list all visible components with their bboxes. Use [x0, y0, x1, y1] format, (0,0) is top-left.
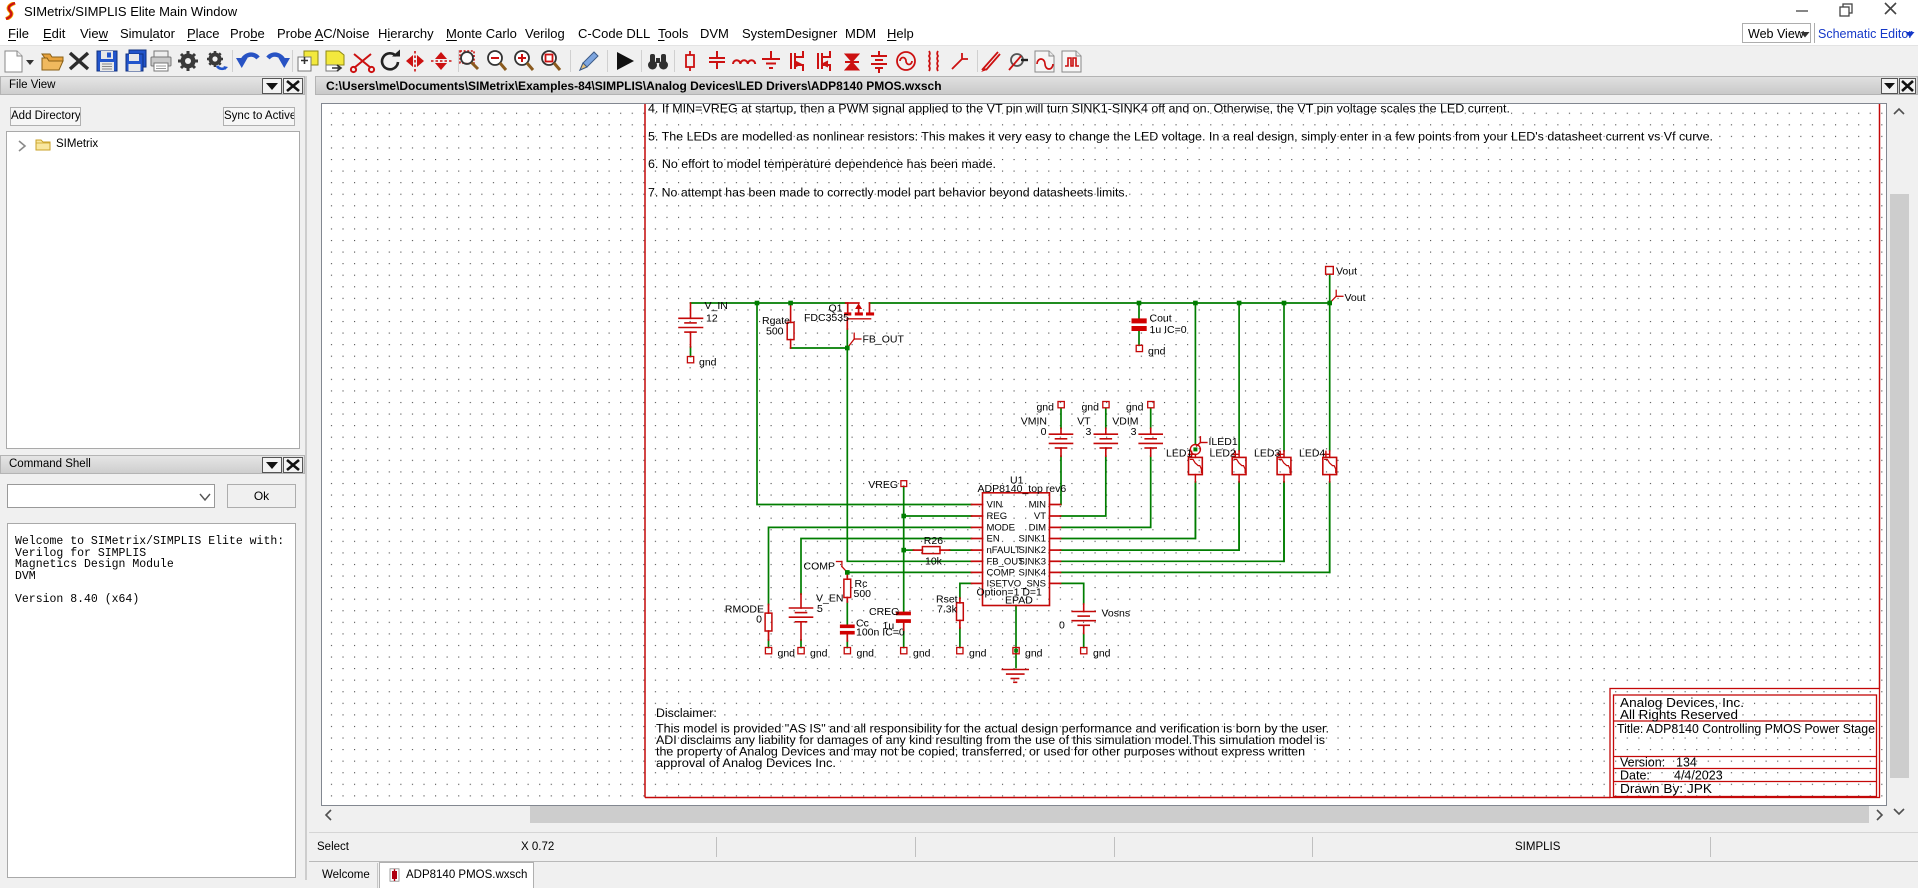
flip horizontal [431, 52, 453, 70]
wire VREG vertical [903, 486, 905, 611]
svg-text:gnd: gnd [857, 648, 875, 660]
svg-text:EN: EN [987, 534, 1000, 545]
svg-text:gnd: gnd [969, 648, 987, 660]
svg-text:SINK2: SINK2 [1019, 545, 1046, 556]
wire VDIM gnd lead [1150, 409, 1152, 429]
zoom box [542, 51, 560, 70]
zoom out [488, 51, 506, 70]
svg-text:gnd: gnd [913, 648, 931, 660]
wire SINK1 net [1061, 482, 1196, 539]
probe FB_OUT [847, 333, 861, 348]
LED1 [1189, 451, 1203, 482]
svg-text:134: 134 [1676, 756, 1697, 770]
wire VT gnd lead [1105, 409, 1107, 429]
svg-text:nFAULT: nFAULT [987, 545, 1021, 556]
svg-text:approval of Analog Devices Inc: approval of Analog Devices Inc. [656, 756, 836, 770]
wire LED4 anode [1329, 303, 1331, 451]
save all [126, 50, 146, 71]
svg-text:500: 500 [854, 588, 872, 600]
wire VO_SNS net [1061, 583, 1084, 604]
svg-text:4/4/2023: 4/4/2023 [1674, 769, 1723, 783]
wire DIM net [1061, 456, 1151, 527]
place resistor [686, 51, 694, 71]
run simulation [617, 52, 634, 70]
LED3 [1277, 451, 1291, 482]
place power supply [871, 51, 887, 73]
svg-text:REG: REG [987, 511, 1008, 522]
ground terminal VDIM [1126, 402, 1154, 414]
svg-text:7.3k: 7.3k [937, 604, 958, 616]
rotate [382, 53, 398, 69]
place capacitor [709, 51, 725, 69]
svg-text:MODE: MODE [987, 522, 1016, 533]
svg-text:Drawn By: JPK: Drawn By: JPK [1620, 782, 1713, 796]
svg-text:VREG: VREG [868, 479, 898, 491]
svg-text:Date:: Date: [1620, 769, 1650, 783]
svg-text:CREG: CREG [869, 606, 899, 618]
wire nFAULT segments [904, 549, 972, 551]
open folder [42, 54, 63, 70]
svg-text:COMP: COMP [987, 567, 1016, 578]
wire Rset gnd [959, 628, 961, 648]
wire ISET net [960, 583, 972, 598]
probe Vout [1330, 290, 1343, 303]
svg-text:LED4: LED4 [1299, 447, 1325, 459]
svg-text:ADP8140_top rev6: ADP8140_top rev6 [978, 483, 1067, 495]
place ground [762, 51, 780, 68]
wire Cc gnd [846, 641, 848, 648]
ground terminal VMIN [1036, 402, 1064, 414]
wire LED1 anode [1194, 303, 1196, 444]
svg-text:Cout: Cout [1150, 313, 1172, 325]
ground terminal EPAD [1013, 648, 1043, 660]
ground terminal V_IN [687, 357, 716, 369]
svg-text:SINK4: SINK4 [1019, 567, 1046, 578]
svg-text:10k: 10k [925, 556, 943, 568]
svg-text:gnd: gnd [1081, 402, 1099, 414]
svg-text:VT: VT [1034, 511, 1046, 522]
place ac source [897, 52, 915, 70]
page border bottom [645, 797, 1610, 799]
resistor Rc [844, 572, 851, 602]
svg-text:gnd: gnd [1036, 402, 1054, 414]
wire REG row [904, 515, 972, 517]
svg-text:ILED1: ILED1 [1209, 436, 1238, 448]
capacitor Cout [1132, 318, 1147, 331]
svg-text:LED2: LED2 [1210, 447, 1236, 459]
probe ILED1 (current probe) [1190, 437, 1207, 455]
wire EPAD to ground [1015, 606, 1017, 668]
svg-text:0: 0 [1041, 426, 1047, 438]
svg-text:Disclaimer:: Disclaimer: [656, 706, 717, 720]
redo [268, 55, 284, 63]
ground terminal Cc [844, 648, 874, 660]
terminal VREG [868, 479, 906, 491]
flip vertical [406, 51, 424, 73]
svg-text:7. No attempt has been made to: 7. No attempt has been made to correctly… [648, 186, 1128, 200]
svg-text:gnd: gnd [699, 357, 717, 369]
svg-text:1u IC=0: 1u IC=0 [1150, 324, 1187, 336]
svg-text:1u: 1u [883, 620, 895, 632]
svg-text:gnd: gnd [1025, 648, 1043, 660]
disclaimer [656, 706, 1329, 770]
wire SINK2 net [1061, 482, 1240, 550]
wire V_EN gnd [800, 640, 802, 648]
edit pencil [580, 52, 598, 70]
wire Rgate to FB_OUT node [791, 347, 848, 349]
place inductor [733, 60, 755, 64]
ground terminal V_EN [798, 648, 828, 660]
place diode [845, 54, 859, 70]
wire Rc to Cc [846, 602, 848, 625]
close X [70, 53, 88, 69]
svg-text:FB_OUT: FB_OUT [863, 334, 905, 346]
svg-text:All Rights Reserved: All Rights Reserved [1620, 708, 1738, 722]
wire VIN net to pin [757, 303, 972, 505]
svg-text:0: 0 [1059, 620, 1065, 632]
wire MIN net [1060, 456, 1063, 504]
wire V_IN top rail [691, 302, 846, 304]
svg-text:gnd: gnd [778, 648, 796, 660]
svg-text:12: 12 [706, 313, 718, 325]
svg-text:DIM: DIM [1029, 522, 1047, 533]
zoom in [515, 51, 533, 70]
wire SINK4 net [1061, 482, 1330, 572]
svg-text:4. If MIN=VREG at startup, the: 4. If MIN=VREG at startup, then a PWM si… [648, 104, 1510, 116]
svg-text:Vosns: Vosns [1102, 608, 1131, 620]
battery V_EN [790, 594, 813, 640]
title block [1610, 689, 1880, 798]
svg-text:Version:: Version: [1620, 756, 1665, 770]
svg-text:Vout: Vout [1345, 292, 1366, 304]
wire EN net [801, 539, 972, 595]
svg-text:gnd: gnd [1093, 648, 1111, 660]
transistor Q1 (PMOS FDC3535) [844, 303, 874, 329]
wire LED2 cathode [1238, 482, 1240, 550]
wire LED3 anode [1283, 303, 1285, 451]
svg-text:5: 5 [817, 603, 823, 615]
svg-text:EPAD: EPAD [1005, 595, 1033, 607]
resistor RMODE [765, 605, 772, 641]
separators [233, 50, 978, 72]
options gear [178, 51, 198, 71]
copy to clipboard [298, 51, 318, 71]
svg-text:MIN: MIN [1029, 500, 1047, 511]
simulator options gear [207, 51, 228, 70]
ground terminal RMODE [765, 648, 795, 660]
schematic notes [648, 102, 1713, 200]
place pmos [818, 51, 830, 71]
Web View / Schematic Editor selectors [1748, 27, 1804, 41]
horizontal scrollbar [321, 806, 1887, 823]
new schematic [5, 51, 22, 72]
window title [315, 76, 1918, 95]
Command Shell panel [0, 455, 305, 474]
svg-text:FDC3535: FDC3535 [804, 312, 849, 324]
svg-text:R26: R26 [924, 535, 943, 547]
ground terminal VT [1081, 402, 1109, 414]
ground terminal CREG [901, 648, 931, 660]
wire Vosns gnd [1083, 634, 1085, 648]
paste [326, 51, 344, 71]
wire CREG gnd [903, 630, 905, 648]
wire LED2 anode [1238, 303, 1240, 451]
svg-text:SINK3: SINK3 [1019, 556, 1046, 567]
svg-text:100n IC=0: 100n IC=0 [856, 627, 905, 639]
battery Vosns [1072, 604, 1095, 634]
page border right [1879, 104, 1881, 689]
svg-text:VIN: VIN [987, 500, 1003, 511]
svg-text:3: 3 [1131, 426, 1137, 438]
resistor Rset [957, 598, 964, 628]
wire V_IN battery gnd [690, 347, 692, 357]
wire Vout terminal drop [1329, 275, 1331, 304]
ground terminal Vosns [1081, 648, 1111, 660]
svg-text:gnd: gnd [1148, 345, 1166, 357]
save [97, 51, 117, 71]
wire LED4 cathode [1329, 482, 1331, 572]
capacitor Cc [840, 625, 855, 635]
svg-text:0: 0 [756, 614, 762, 626]
resistor Rgate [787, 303, 794, 348]
print [151, 51, 171, 71]
svg-text:3: 3 [1085, 426, 1091, 438]
svg-text:LED1: LED1 [1166, 447, 1192, 459]
wire VMIN gnd lead [1060, 409, 1062, 429]
battery V_IN [679, 303, 703, 347]
terminal Vout [1326, 266, 1358, 278]
svg-text:COMP: COMP [804, 561, 836, 573]
battery VDIM [1139, 428, 1162, 456]
cut scissors [351, 54, 374, 72]
vertical scrollbar [1890, 103, 1909, 823]
probe COMP [837, 562, 848, 573]
svg-text:500: 500 [766, 326, 784, 338]
File View panel [0, 76, 305, 95]
svg-text:V_IN: V_IN [705, 300, 728, 312]
ground terminal Cout [1136, 345, 1165, 357]
junction nodes [755, 301, 1332, 575]
svg-text:6. No effort to model temperat: 6. No effort to model temperature depend… [648, 157, 996, 171]
svg-text:5. The LEDs are modelled as no: 5. The LEDs are modelled as nonlinear re… [648, 130, 1713, 144]
place probe [981, 52, 1000, 72]
svg-text:SINK1: SINK1 [1019, 534, 1046, 545]
wire LED1 cathode [1194, 482, 1196, 539]
resistor R26 [914, 547, 950, 554]
IC U1 ADP8140 [972, 493, 1061, 606]
place current probe [1009, 54, 1028, 70]
svg-text:Title: ADP8140 Controlling PMO: Title: ADP8140 Controlling PMOS Power St… [1617, 722, 1875, 736]
search binoculars [648, 54, 668, 70]
LED4 [1323, 451, 1337, 482]
wire VT net [1061, 456, 1106, 516]
ground terminal Rset [957, 648, 987, 660]
svg-text:Vout: Vout [1336, 266, 1357, 278]
place transformer [929, 51, 938, 71]
canvas [321, 103, 1887, 806]
wire LED3 cathode [1283, 482, 1285, 561]
wire SINK3 net [1061, 482, 1285, 561]
sine source file [1035, 51, 1054, 72]
battery VT [1094, 428, 1117, 456]
svg-text:LED3: LED3 [1254, 447, 1280, 459]
place terminal [952, 53, 968, 69]
page border left [644, 104, 646, 798]
wire FB_OUT vertical and row [847, 329, 971, 561]
ground symbol EPAD [1002, 670, 1028, 683]
battery VMIN [1050, 428, 1073, 456]
LED2 [1232, 451, 1246, 482]
zoom to selection [460, 51, 478, 69]
place nmos [791, 51, 803, 71]
svg-text:gnd: gnd [810, 648, 828, 660]
svg-text:gnd: gnd [1126, 402, 1144, 414]
undo [242, 55, 258, 63]
wire Vout top rail [870, 302, 1330, 304]
wire RMODE gnd [768, 640, 770, 648]
wire MODE net [769, 527, 972, 604]
capacitor CREG [896, 612, 911, 623]
wire Cout top [1138, 303, 1140, 345]
pulse source file [1062, 51, 1081, 72]
wire COMP row [847, 571, 971, 573]
